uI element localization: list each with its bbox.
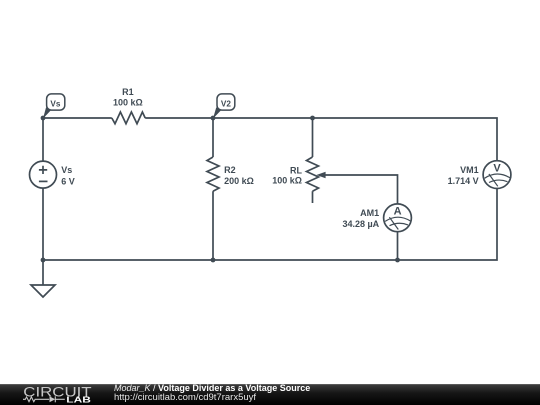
wire bottom rail from VM1 [43,189,497,261]
svg-text:V: V [493,163,501,175]
svg-text:Vs: Vs [61,165,72,175]
wire top left Vs node to R1 [43,118,112,161]
RL wiper wire to ammeter [325,175,398,204]
Vs plus sign [39,166,47,174]
RL wiper arrowhead [316,172,325,178]
node flag V2 box [217,94,235,110]
junction dot Vs node [41,116,46,121]
AM1 needle [389,217,398,229]
node flag V2 tail [213,108,224,119]
svg-text:100 kΩ: 100 kΩ [113,98,143,108]
node flag Vs box [47,94,65,110]
junction dot RL top [310,116,315,121]
svg-text:6 V: 6 V [61,176,75,186]
svg-text:LAB: LAB [66,395,91,405]
ground stub wire [42,260,44,285]
CircuitLab logo [0,384,100,405]
ground [31,285,55,297]
Vs minus sign [39,180,48,182]
wire source to bottom rail [42,188,44,260]
resistor R2 [207,157,219,191]
svg-text:AM1: AM1 [360,208,379,218]
AM1 meter face arcs [385,217,410,229]
resistor R1 [112,112,145,124]
junction dot bottom AM1 [395,258,400,263]
footer bar [0,384,540,405]
svg-text:V2: V2 [221,99,231,108]
wire R1 to top right corner, down to VM1 [145,118,497,161]
wire RL top [312,118,314,157]
junction dot bottom R2 [211,258,216,263]
wire AM1 to bottom rail [397,232,399,260]
ammeter AM1 circle [384,204,412,232]
svg-text:VM1: VM1 [460,165,479,175]
wire R2 to bottom rail [212,191,214,260]
svg-text:R2: R2 [224,165,236,175]
VM1 meter face arcs [485,174,510,186]
svg-text:RL: RL [290,166,302,176]
svg-text:A: A [394,206,402,218]
svg-text:R1: R1 [122,87,134,97]
voltmeter VM1 circle [483,161,511,189]
svg-text:1.714 V: 1.714 V [448,176,479,186]
potentiometer RL [307,157,319,191]
svg-text:100 kΩ: 100 kΩ [272,176,302,186]
RL bottom stub [312,191,314,203]
wire V2 node down to R2 [212,118,214,157]
voltage source Vs circle [30,161,57,188]
junction dot bottom left [41,258,46,263]
svg-text:200 kΩ: 200 kΩ [224,176,254,186]
node flag Vs tail [43,108,54,119]
VM1 needle [489,174,498,186]
svg-text:34.28 µA: 34.28 µA [342,219,379,229]
svg-text:Vs: Vs [50,99,60,108]
junction dot V2 node [211,116,216,121]
